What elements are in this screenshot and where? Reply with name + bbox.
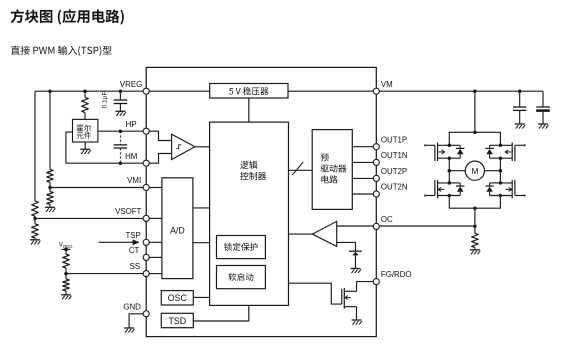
motor M1 — [449, 161, 500, 180]
ground below R4 — [45, 207, 55, 212]
wire VMI to A/D — [146, 187, 162, 189]
wire bridge top rail — [449, 131, 500, 146]
bus wire logic to pre-driver with slash — [289, 162, 313, 175]
lock protection block — [217, 236, 266, 259]
terminal VREG supply — [62, 248, 71, 255]
label VREG supply — [59, 242, 73, 249]
node dot HM-C2 — [119, 161, 123, 165]
transistor Q2 top-left — [425, 143, 465, 162]
svg-text:OSC: OSC — [168, 293, 188, 303]
wire hall supply down — [84, 91, 86, 97]
wire pre-driver to OUT1P — [352, 146, 376, 148]
node dot HP-C2 — [119, 129, 123, 133]
IC body outline — [146, 67, 376, 336]
OSC block — [161, 291, 193, 305]
svg-text:SS: SS — [130, 262, 141, 271]
wire pre-driver to OUT2N — [352, 193, 376, 195]
pin HP — [143, 128, 149, 134]
resistor R3 upper — [47, 169, 54, 182]
wire CT to A/D — [146, 256, 162, 258]
wire GND pin to ground — [129, 314, 146, 328]
ground below R2 — [30, 240, 40, 245]
node dot OC junction — [473, 224, 477, 228]
wire comparator to logic controller — [195, 146, 210, 148]
wire HM to comparator input — [146, 154, 171, 164]
wire R1 to VSOFT node — [34, 216, 36, 224]
wire HP to comparator input — [146, 131, 171, 140]
svg-text:0.1μF: 0.1μF — [102, 92, 109, 109]
ground below C4 — [538, 124, 548, 129]
resistor R8 current sense — [472, 233, 479, 247]
resistor R6 SS pullup — [63, 254, 70, 268]
label pin FG/RDO — [381, 270, 412, 279]
wire hall to ground — [84, 142, 86, 149]
wire OC pin to comparator input — [337, 225, 377, 227]
wire R2 to ground — [34, 238, 36, 240]
wire hall to HP pin — [98, 130, 146, 132]
node dot motor left — [448, 169, 452, 173]
node dot VM-bridge — [473, 89, 477, 93]
svg-text:TSD: TSD — [168, 316, 186, 326]
capacitor C4 electrolytic — [536, 91, 550, 124]
diode D1 reference — [349, 251, 362, 268]
pin HM — [143, 160, 149, 166]
wire SS to A/D — [146, 273, 162, 275]
pin VM — [373, 88, 379, 94]
label pin HP — [126, 120, 137, 129]
pin VMI — [143, 184, 149, 190]
pin OUT1P — [373, 144, 379, 150]
svg-text:OUT1P: OUT1P — [381, 135, 407, 144]
wire R4 to ground — [49, 205, 51, 208]
wire hall to HM pin — [66, 132, 146, 163]
svg-text:HM: HM — [125, 152, 137, 161]
label pin OUT1P — [381, 135, 407, 144]
wire VMI to pin — [50, 187, 146, 189]
ground below R7 — [61, 295, 71, 300]
wire 5V regulator to VM — [288, 90, 376, 92]
hall element block — [73, 119, 98, 142]
node dot VSOFT divider — [33, 217, 37, 221]
label pin OC — [381, 215, 393, 224]
wire bridge bottom rail — [449, 196, 500, 210]
wire 5V regulator to logic controller — [248, 98, 250, 122]
pin FG/RDO — [373, 279, 379, 285]
TSD block — [161, 313, 193, 327]
pin GND — [143, 311, 149, 317]
node dot VREG-R2 — [48, 89, 52, 93]
label pin OUT2P — [381, 167, 407, 176]
A/D converter block — [162, 178, 193, 279]
wire bridge to sense resistor — [474, 208, 476, 233]
wire R6 to SS node — [65, 268, 67, 279]
pin CT — [143, 254, 149, 260]
svg-text:HP: HP — [126, 120, 137, 129]
svg-text:OUT2P: OUT2P — [381, 167, 407, 176]
title text — [11, 9, 124, 24]
5V regulator block U-REG — [210, 84, 288, 99]
resistor R5 hall supply — [82, 97, 89, 112]
node dot VM-C3 — [518, 89, 522, 93]
label pin OUT2N — [381, 183, 408, 192]
capacitor C1 0.1uF — [114, 91, 128, 111]
pin TSP — [143, 239, 149, 245]
svg-text:VM: VM — [381, 80, 393, 89]
label pin VREG — [120, 80, 142, 89]
label pin SS — [130, 262, 141, 271]
wire SS to pin — [66, 273, 146, 275]
wire A/D to logic controller 2 — [193, 242, 210, 244]
label pin GND — [123, 302, 141, 311]
label pin CT — [129, 246, 140, 255]
svg-text:OUT1N: OUT1N — [381, 151, 408, 160]
transistor Q1 FG open-drain — [342, 282, 357, 320]
soft start block — [217, 266, 266, 289]
wire R7 to ground — [65, 291, 67, 295]
ground below Q1 — [352, 320, 362, 325]
node dot SS divider — [64, 272, 68, 276]
wire A/D to logic controller 1 — [193, 207, 210, 209]
wire OC comparator output to logic — [289, 233, 313, 235]
transistor Q5 bottom-right — [485, 180, 525, 198]
svg-text:VREG: VREG — [120, 80, 142, 89]
svg-text:A/D: A/D — [170, 226, 185, 236]
svg-text:FG/RDO: FG/RDO — [381, 270, 412, 279]
svg-text:GND: GND — [123, 302, 141, 311]
pin OUT1N — [373, 159, 379, 165]
wire bridge left mid rail — [448, 158, 450, 183]
wire TSD to logic controller — [193, 305, 249, 321]
wire R8 to ground — [474, 248, 476, 250]
label pin VSOFT — [115, 207, 141, 216]
pin SS — [143, 271, 149, 277]
wire OC pin rail — [376, 225, 475, 227]
pin VREG — [143, 88, 149, 94]
resistor R2 lower — [32, 224, 39, 238]
transistor Q4 top-right — [485, 143, 525, 162]
wire OSC to logic controller — [193, 296, 209, 298]
label pin OUT1N — [381, 151, 408, 160]
node dot motor right — [499, 169, 503, 173]
resistor R1 upper — [32, 201, 39, 216]
wire VSOFT to A/D — [146, 217, 162, 219]
label pin VMI — [127, 176, 141, 185]
pin OUT2P — [373, 175, 379, 181]
ground below hall element — [80, 149, 90, 154]
wire VM rail — [376, 90, 543, 92]
svg-text:TSP: TSP — [125, 231, 140, 240]
capacitor C2 hall filter — [114, 131, 128, 163]
wire VM to bridge — [474, 91, 476, 132]
wire far-left rail down — [34, 91, 36, 201]
svg-text:OUT2N: OUT2N — [381, 183, 408, 192]
op-amp hall comparator — [172, 134, 195, 159]
wire comparator ref input — [337, 242, 356, 251]
logic controller block — [210, 122, 289, 305]
pin VSOFT — [143, 215, 149, 221]
label 0.1uF — [102, 92, 109, 109]
resistor R7 SS pulldown — [63, 279, 70, 291]
subtitle text — [11, 46, 112, 56]
arrow TSP input — [99, 239, 140, 245]
wire VREG rail — [35, 90, 146, 92]
op-amp OC comparator — [312, 221, 336, 246]
wire VMI rail down — [49, 91, 51, 169]
capacitor C3 — [513, 91, 526, 124]
svg-text:VSOFT: VSOFT — [115, 207, 141, 216]
pin OUT2N — [373, 191, 379, 197]
wire FG pin to transistor — [357, 281, 377, 283]
node dot VREG-C1 — [119, 89, 123, 93]
wire TSP to A/D — [146, 241, 162, 243]
label pin HM — [125, 152, 137, 161]
wire pre-driver to OUT2P — [352, 177, 376, 179]
ground below C1 — [116, 111, 126, 116]
node dot VREG-hall — [83, 89, 87, 93]
resistor R4 lower — [47, 192, 54, 205]
svg-text:M: M — [471, 167, 478, 176]
ground below C3 — [515, 124, 525, 129]
ground below R8 — [470, 250, 480, 255]
label pin VM — [381, 80, 393, 89]
wire bridge right mid rail — [499, 158, 501, 183]
wire VSOFT to pin — [35, 217, 146, 219]
wire R3 to VMI node — [49, 182, 51, 191]
ground below D1 — [351, 269, 361, 274]
pre-driver block — [312, 130, 352, 210]
wire pre-driver to OUT1N — [352, 161, 376, 163]
svg-text:CT: CT — [129, 246, 140, 255]
ground below GND pin — [124, 328, 134, 333]
svg-text:VMI: VMI — [127, 176, 141, 185]
transistor Q3 bottom-left — [425, 180, 465, 198]
node dot VMI divider — [48, 186, 52, 190]
pin OC — [373, 223, 379, 229]
label pin TSP — [125, 231, 140, 240]
wire R5 to hall element — [84, 113, 86, 120]
svg-text:OC: OC — [381, 215, 393, 224]
wire logic to FG transistor gate — [289, 283, 342, 304]
wire VREG to 5V regulator — [146, 90, 210, 92]
